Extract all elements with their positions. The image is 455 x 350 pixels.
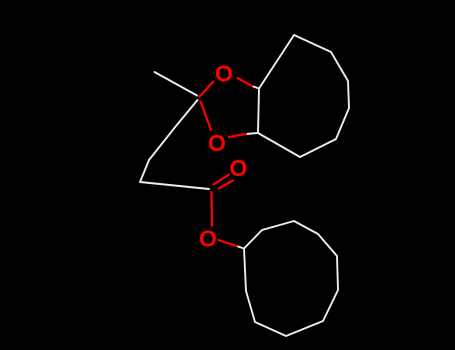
bond C2-O3 [201,102,212,131]
svg-text:O: O [230,155,248,181]
bond O1-C5 white half [252,86,259,89]
svg-text:O: O [199,225,217,251]
ring bottom cycloalkane [244,221,338,336]
ring cycloalkane fused at C4-C5 [258,35,349,157]
bond O3-C4 red half [229,134,246,137]
bond chain C2 to ester carbon [140,100,209,189]
bond O1-C5 red half [238,78,253,86]
double bond C=O line 2 [219,181,234,189]
bond ester O to ring red half [219,240,237,246]
bond O1-C2 [200,82,214,97]
double bond C=O line 1 [214,175,230,185]
bond C2-methyl [155,72,198,96]
bond ester O to ring white half [237,246,245,249]
bond ester C-O [210,192,213,226]
bond O3-C4 white half [246,133,258,134]
svg-text:O: O [208,130,226,156]
svg-text:O: O [215,60,233,86]
bond C4-C5 [258,89,259,134]
